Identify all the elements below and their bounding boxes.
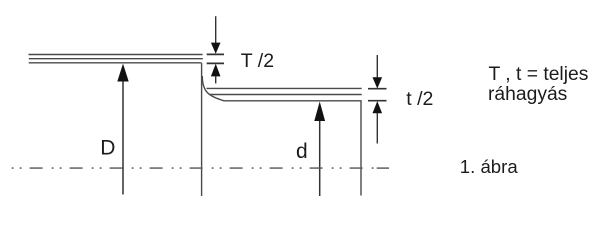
svg-text:T , t = teljes: T , t = teljes xyxy=(489,64,589,85)
svg-text:D: D xyxy=(100,136,115,159)
svg-text:t /2: t /2 xyxy=(406,88,433,110)
svg-text:1. ábra: 1. ábra xyxy=(460,156,519,177)
svg-text:ráhagyás: ráhagyás xyxy=(488,84,567,105)
svg-text:d: d xyxy=(296,140,308,163)
svg-text:T /2: T /2 xyxy=(241,50,274,72)
